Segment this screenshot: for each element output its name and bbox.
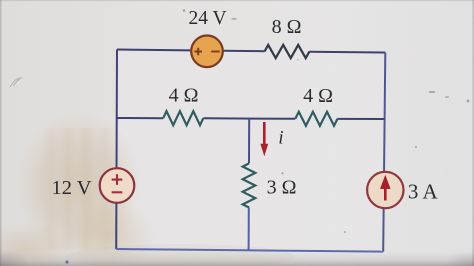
wire top right of 8-ohm bbox=[309, 51, 385, 54]
resistor R3 4 ohm (right) bbox=[295, 112, 337, 126]
wire middle center bbox=[203, 117, 295, 120]
resistor R2 4 ohm (left) bbox=[163, 111, 203, 125]
wire center branch lower bbox=[248, 208, 250, 251]
wire bottom bbox=[116, 249, 383, 252]
wire left branch bbox=[115, 50, 118, 250]
voltage source V2 12V bbox=[100, 168, 135, 203]
wire middle right bbox=[338, 118, 385, 120]
current arrow i bbox=[260, 122, 268, 156]
wire middle left bbox=[116, 117, 163, 119]
wire top (node a to node b) bbox=[117, 50, 265, 52]
wire right branch bbox=[383, 53, 385, 252]
resistor R4 3 ohm (vertical) bbox=[243, 163, 256, 207]
resistor R1 8 ohm bbox=[265, 45, 310, 58]
specks bbox=[429, 91, 435, 93]
wire center branch upper bbox=[248, 118, 250, 164]
voltage source V1 24V bbox=[191, 36, 223, 68]
pencil scribble mark bbox=[10, 77, 22, 87]
current source I1 3A bbox=[367, 172, 403, 208]
